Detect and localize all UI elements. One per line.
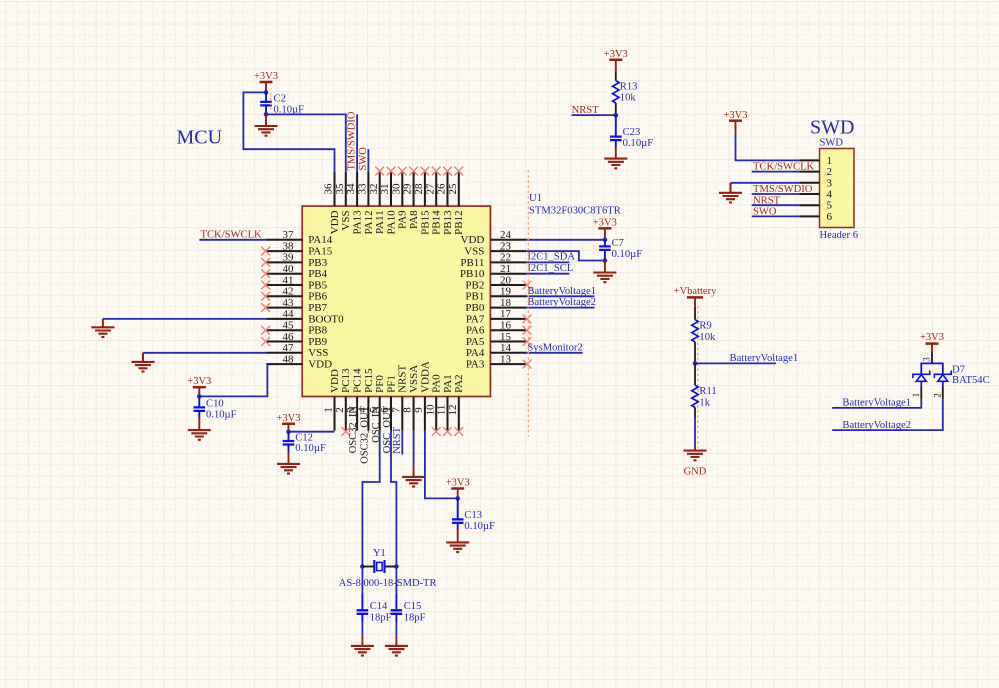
pin 43 (PB7) left (266, 297, 327, 314)
svg-text:AS-8.000-18-SMD-TR: AS-8.000-18-SMD-TR (339, 578, 437, 589)
wire C14 to ground (361, 623, 363, 646)
wire VDDA (pin 9) to C13 (425, 431, 458, 499)
svg-text:2: 2 (827, 166, 833, 178)
pin 8 (VSSA) bottom (402, 365, 420, 431)
diode D7 (dual schottky BAT54C) (911, 363, 951, 399)
wire SWD pin 3 to ground (731, 183, 800, 193)
svg-text:25: 25 (447, 183, 459, 195)
svg-text:0.10µF: 0.10µF (623, 138, 654, 149)
node C2 bottom junction (264, 112, 269, 117)
svg-text:GND: GND (684, 467, 707, 478)
svg-text:46: 46 (283, 331, 295, 343)
pin 11 (PA1) bottom (436, 374, 454, 430)
svg-text:0.10µF: 0.10µF (612, 249, 643, 260)
wire NRST (572, 114, 616, 116)
svg-text:2: 2 (334, 407, 346, 413)
pin 44 (BOOT0) left (266, 308, 344, 325)
wire VSSA (pin 8) to ground (413, 431, 415, 477)
svg-text:39: 39 (283, 252, 295, 264)
svg-text:41: 41 (283, 274, 294, 286)
svg-text:1: 1 (911, 393, 921, 398)
no-connect pin 27 (432, 167, 441, 176)
svg-text:31: 31 (379, 184, 391, 195)
pin 14 (PA4) right (466, 342, 526, 359)
svg-text:PA1: PA1 (442, 374, 454, 393)
value STM32F030C8T6TR (529, 205, 622, 216)
node crystal left junction (360, 564, 365, 569)
no-connect pin 20 (523, 281, 532, 290)
svg-text:33: 33 (357, 183, 369, 195)
pin 18 (PB0) right (465, 297, 526, 314)
svg-text:D7: D7 (952, 365, 965, 376)
svg-text:42: 42 (283, 286, 294, 298)
pin 13 (PA3) right (466, 353, 526, 370)
svg-text:PC15: PC15 (363, 368, 375, 393)
svg-text:+3V3: +3V3 (187, 376, 211, 387)
svg-text:2: 2 (932, 393, 942, 398)
label GND (684, 467, 707, 478)
svg-text:1: 1 (323, 407, 335, 413)
pin 2 (PC13) bottom (334, 368, 352, 431)
svg-text:PB1: PB1 (465, 291, 484, 303)
svg-text:R11: R11 (699, 386, 716, 397)
pin 6 SWD header (799, 211, 832, 223)
svg-text:+3V3: +3V3 (254, 71, 278, 82)
svg-text:C10: C10 (206, 399, 224, 410)
power +Vbattery (674, 286, 717, 307)
wire +3V3 to pin 36 (VDD) (243, 92, 334, 171)
net label BatteryVoltage1 (D7) (832, 398, 921, 409)
svg-text:9: 9 (413, 407, 425, 413)
designator D7 (952, 365, 965, 376)
no-connect pin 40 (261, 269, 270, 278)
svg-text:C12: C12 (295, 432, 313, 443)
svg-text:SysMonitor2: SysMonitor2 (527, 342, 582, 353)
power +3V3 (C10) (187, 376, 211, 396)
pin 41 (PB5) left (266, 274, 327, 291)
no-connect pin 13 (523, 360, 532, 369)
svg-text:MCU: MCU (177, 127, 223, 149)
ground (C15) (385, 646, 408, 656)
power +3V3 (D7) (920, 332, 944, 352)
svg-text:27: 27 (424, 183, 436, 195)
svg-text:0.10µF: 0.10µF (206, 409, 237, 420)
svg-text:PA14: PA14 (308, 234, 333, 246)
svg-text:40: 40 (283, 263, 295, 275)
ground (C14) (351, 646, 374, 656)
wire VSS pin 23 to C7 bottom (526, 251, 605, 260)
svg-text:C7: C7 (612, 238, 624, 249)
wire R11 to ground (694, 419, 696, 451)
value BAT54C (952, 375, 990, 386)
svg-text:BatteryVoltage2: BatteryVoltage2 (527, 297, 596, 308)
no-connect pin 2 (341, 427, 350, 436)
port NRST (SWD pin 5) (753, 195, 781, 206)
svg-text:VSS: VSS (340, 210, 352, 230)
capacitor C12 (283, 432, 295, 452)
svg-text:PB13: PB13 (442, 210, 454, 235)
svg-text:10k: 10k (620, 93, 637, 104)
pin 29 (PA8) top (402, 172, 420, 229)
svg-text:PB2: PB2 (465, 279, 484, 291)
no-connect pin 43 (261, 303, 270, 312)
wire NRST to SWD pin 5 (752, 204, 800, 206)
svg-text:VSS: VSS (308, 347, 328, 359)
svg-text:VSSA: VSSA (408, 365, 420, 393)
svg-text:14: 14 (500, 342, 512, 354)
svg-text:PA6: PA6 (466, 325, 485, 337)
svg-text:PB3: PB3 (308, 257, 327, 269)
port SWO (358, 147, 369, 171)
svg-text:PB10: PB10 (460, 268, 485, 280)
pin 21 (PB10) right (460, 263, 526, 280)
no-connect pin 31 (387, 167, 396, 176)
crystal Y1 (362, 560, 396, 573)
no-connect pin 42 (261, 292, 270, 301)
pin 39 (PB3) left (266, 252, 327, 269)
pin 42 (PB6) left (266, 286, 327, 303)
wire crystal to C15 (395, 567, 397, 594)
no-connect pin 46 (261, 337, 270, 346)
pin 28 (PB15) top (413, 172, 431, 235)
svg-text:SWO: SWO (358, 147, 369, 171)
svg-text:+3V3: +3V3 (920, 332, 944, 343)
svg-text:OSC_IN: OSC_IN (371, 406, 382, 443)
svg-text:VDD: VDD (329, 369, 341, 393)
svg-text:4: 4 (827, 189, 833, 201)
svg-text:13: 13 (500, 353, 512, 365)
svg-text:PA15: PA15 (308, 246, 333, 258)
svg-text:PB0: PB0 (465, 302, 484, 314)
net label OSC_IN (371, 406, 382, 443)
title MCU (177, 127, 223, 149)
svg-text:SWD: SWD (820, 138, 844, 149)
label SWD (header name) (820, 138, 844, 149)
pin 3 D7 (922, 353, 933, 364)
no-connect pin 32 (375, 167, 384, 176)
diff mark C2 (270, 93, 272, 112)
node C12 junction (286, 429, 291, 434)
port TCK/SWCLK (SWD pin 2) (753, 162, 815, 173)
svg-text:32: 32 (368, 184, 380, 195)
svg-text:PC14: PC14 (352, 368, 364, 393)
svg-text:PA4: PA4 (466, 347, 485, 359)
svg-text:+3V3: +3V3 (593, 218, 617, 229)
capacitor C23 (610, 115, 622, 148)
ground (VSSA) (402, 477, 425, 487)
net label OSC32_OUT (360, 405, 371, 463)
svg-text:24: 24 (500, 229, 512, 241)
pin 32 (PA11) top (368, 172, 386, 234)
ground (C7) (593, 261, 616, 283)
svg-text:8: 8 (402, 407, 414, 413)
svg-text:3: 3 (922, 357, 932, 362)
svg-text:C13: C13 (464, 510, 482, 521)
svg-text:PB6: PB6 (308, 291, 327, 303)
svg-text:PB5: PB5 (308, 279, 327, 291)
svg-text:18: 18 (500, 297, 512, 309)
designator Y1 (373, 548, 386, 559)
diff mark battery divider (697, 306, 699, 448)
node C7 top junction (603, 238, 608, 243)
title SWD (810, 117, 854, 139)
no-connect pin 41 (261, 281, 270, 290)
ground (C13) (446, 530, 469, 552)
no-connect pin 38 (261, 247, 270, 256)
svg-text:10: 10 (424, 404, 436, 416)
ground (VSS pin 47) (132, 362, 155, 372)
pin 7 (NRST) bottom (390, 365, 408, 431)
svg-text:+3V3: +3V3 (276, 413, 300, 424)
pin 5 SWD header (799, 200, 832, 212)
svg-text:1k: 1k (699, 397, 710, 408)
pin 4 SWD header (799, 189, 832, 201)
svg-text:PA0: PA0 (431, 374, 443, 393)
power +3V3 (C12) (276, 413, 300, 432)
wire VDD pin 24 to C7 (526, 239, 605, 241)
svg-text:47: 47 (283, 342, 295, 354)
pin 23 (VSS) right (464, 240, 526, 257)
pin 31 (PA10) top (379, 172, 397, 235)
svg-text:U1: U1 (529, 193, 542, 204)
node divider junction (693, 361, 698, 366)
svg-text:PB8: PB8 (308, 325, 327, 337)
no-connect pin 15 (523, 337, 532, 346)
net label OSC32_IN (348, 406, 359, 454)
svg-text:TCK/SWCLK: TCK/SWCLK (201, 229, 263, 240)
value AS-8.000-18-SMD-TR (339, 578, 437, 589)
svg-text:PA5: PA5 (466, 336, 485, 348)
node C2 top junction (264, 90, 269, 95)
label C14 value (370, 601, 392, 624)
svg-text:44: 44 (283, 308, 295, 320)
svg-text:Header 6: Header 6 (820, 230, 859, 241)
ground (C2) (255, 114, 278, 135)
pin 37 (PA14) left (266, 229, 332, 246)
svg-text:STM32F030C8T6TR: STM32F030C8T6TR (529, 205, 622, 216)
pin 10 (PA0) bottom (424, 374, 442, 431)
port TMS/SWDIO (SWD pin 4) (753, 184, 813, 195)
label C2 value (274, 93, 305, 115)
wire TCK/SWCLK to SWD pin 2 (752, 171, 800, 173)
svg-text:PA9: PA9 (397, 210, 409, 229)
no-connect pin 25 (454, 167, 463, 176)
svg-text:OSC32_IN: OSC32_IN (348, 406, 359, 454)
pin 38 (PA15) left (266, 240, 332, 257)
svg-text:C2: C2 (274, 93, 286, 104)
pin 45 (PB8) left (266, 320, 327, 337)
svg-text:+Vbattery: +Vbattery (674, 286, 717, 297)
node C10 junction (197, 394, 202, 399)
port TCK/SWCLK (pin 37) (201, 229, 263, 240)
pin 1 (VDD) bottom (323, 369, 341, 431)
pin 12 (PA2) bottom (447, 374, 465, 430)
svg-text:I2C1_SDA: I2C1_SDA (527, 252, 575, 263)
wire TCK/SWCLK (199, 239, 266, 241)
ground (C10) (188, 418, 211, 440)
power +3V3 (C2) (254, 71, 278, 92)
label C23 value (623, 127, 654, 149)
svg-text:BatteryVoltage1: BatteryVoltage1 (842, 398, 911, 409)
svg-text:R13: R13 (620, 81, 638, 92)
svg-text:35: 35 (334, 183, 346, 195)
label C13 value (464, 510, 495, 532)
svg-text:PB12: PB12 (453, 210, 465, 234)
port SWO (SWD pin 6) (753, 206, 777, 217)
svg-text:6: 6 (827, 211, 833, 223)
pin 3 SWD header (799, 177, 832, 189)
pin 34 (PA13) top (345, 172, 363, 235)
svg-text:VDD: VDD (329, 210, 341, 234)
svg-text:20: 20 (500, 274, 512, 286)
wire C12 to pin 1 (VDD) (289, 431, 335, 433)
ground (C23) (604, 148, 627, 168)
connector J SWD header body (820, 149, 855, 228)
svg-text:3: 3 (827, 177, 833, 189)
net label NRST (pin 7) (392, 426, 403, 454)
capacitor C7 (599, 240, 611, 261)
svg-text:TMS/SWDIO: TMS/SWDIO (347, 111, 358, 170)
svg-text:16: 16 (500, 320, 512, 332)
power +3V3 (SWD) (723, 110, 747, 133)
svg-text:+3V3: +3V3 (604, 49, 628, 60)
node R13/C23 junction (614, 113, 619, 118)
pin 40 (PB4) left (266, 263, 327, 280)
svg-text:PB7: PB7 (308, 302, 327, 314)
no-connect pin 29 (409, 167, 418, 176)
pin 6 (PF1) bottom (379, 375, 397, 431)
label R13 value (620, 81, 638, 103)
pin 46 (PB9) left (266, 331, 327, 348)
node C13 junction (455, 496, 460, 501)
wire SWO stub (pin 33) (367, 149, 369, 172)
svg-text:29: 29 (402, 183, 414, 195)
node crystal right junction (394, 564, 399, 569)
svg-text:PA12: PA12 (363, 210, 375, 234)
capacitor C2 (260, 92, 272, 114)
pin 19 (PB1) right (465, 286, 526, 303)
wire +3V3 to SWD pin 1 (736, 133, 800, 161)
net label BatteryVoltage1 (divider) (695, 353, 798, 364)
svg-text:BAT54C: BAT54C (952, 375, 990, 386)
resistor R11 (692, 363, 698, 418)
svg-text:23: 23 (500, 240, 512, 252)
svg-text:43: 43 (283, 297, 295, 309)
svg-text:0.10µF: 0.10µF (464, 521, 495, 532)
no-connect pin 16 (523, 326, 532, 335)
no-connect pin 17 (523, 315, 532, 324)
pin 16 (PA6) right (466, 320, 526, 337)
ground (GND battery) (684, 451, 707, 461)
svg-text:PF1: PF1 (385, 375, 397, 393)
wire C2 to pin 35 (VSS) (266, 114, 346, 171)
capacitor C13 (452, 498, 464, 530)
svg-text:+3V3: +3V3 (446, 478, 470, 489)
node C7 bottom junction (603, 258, 608, 263)
svg-text:VDDA: VDDA (419, 361, 431, 393)
wire OSC_OUT (pin 6) to crystal (391, 431, 396, 567)
pin 15 (PA5) right (466, 331, 526, 348)
label C10 value (206, 399, 237, 421)
no-connect pin 28 (421, 167, 430, 176)
svg-text:PB11: PB11 (460, 257, 484, 269)
power +3V3 (C13) (446, 478, 470, 499)
svg-text:PA7: PA7 (466, 313, 485, 325)
svg-text:PA13: PA13 (352, 210, 364, 235)
net label SysMonitor2 (pin 14) (526, 342, 583, 353)
wire OSC_IN (pin 5) to crystal (362, 431, 379, 567)
pin 36 (VDD) top (323, 172, 341, 234)
wire SWO to SWD pin 6 (752, 215, 800, 217)
port NRST (572, 105, 600, 116)
net label BatteryVoltage2 (D7) (832, 399, 943, 431)
pin 27 (PB14) top (424, 172, 442, 235)
svg-text:SWD: SWD (810, 117, 854, 139)
pin 33 (PA12) top (357, 172, 375, 235)
pin 26 (PB13) top (436, 172, 454, 235)
svg-text:OSC32_OUT: OSC32_OUT (360, 405, 371, 463)
svg-text:5: 5 (827, 200, 833, 212)
capacitor C14 (357, 593, 369, 622)
resistor R9 (692, 307, 698, 364)
svg-text:17: 17 (500, 308, 512, 320)
svg-text:PA11: PA11 (374, 210, 386, 234)
svg-text:34: 34 (345, 183, 357, 195)
net label I2C1_SCL (pin 21) (526, 263, 573, 274)
pin 20 (PB2) right (465, 274, 526, 291)
no-connect pin 12 (454, 427, 463, 436)
label C7 value (612, 238, 643, 260)
svg-text:PC13: PC13 (340, 368, 352, 393)
svg-text:BatteryVoltage1: BatteryVoltage1 (730, 353, 799, 364)
net label BatteryVoltage2 (pin 18) (526, 297, 596, 308)
wire TMS/SWDIO to SWD pin 4 (752, 193, 800, 195)
svg-text:38: 38 (283, 240, 295, 252)
wire TMS/SWDIO stub (pin 34) (356, 114, 358, 171)
pin 47 (VSS) left (266, 342, 328, 359)
pin 35 (VSS) top (334, 172, 352, 231)
ground (C12) (277, 452, 300, 474)
svg-text:PB14: PB14 (431, 210, 443, 235)
svg-text:PA10: PA10 (385, 210, 397, 235)
power +3V3 (R13) (604, 49, 628, 71)
no-connect pin 30 (398, 167, 407, 176)
svg-text:19: 19 (500, 286, 512, 298)
wire VSS pin 47 to ground (143, 353, 266, 362)
pin 22 (PB11) right (460, 252, 526, 269)
svg-text:26: 26 (436, 183, 448, 195)
svg-text:37: 37 (283, 229, 295, 241)
svg-text:NRST: NRST (572, 105, 600, 116)
no-connect pin 39 (261, 258, 270, 267)
svg-text:VDD: VDD (308, 359, 332, 371)
svg-text:BatteryVoltage1: BatteryVoltage1 (527, 286, 596, 297)
svg-text:PA2: PA2 (453, 374, 465, 393)
pin 25 (PB12) top (447, 172, 465, 235)
resistor R13 (613, 71, 619, 115)
svg-text:C23: C23 (623, 127, 641, 138)
net label OSC_OUT (382, 405, 393, 453)
wire crystal to C14 (361, 567, 363, 594)
wire BOOT0 to ground (103, 319, 267, 327)
svg-text:PA3: PA3 (466, 359, 485, 371)
pin 24 (VDD) right (461, 229, 527, 246)
svg-text:30: 30 (390, 183, 402, 195)
no-connect pin 11 (443, 427, 452, 436)
label C12 value (295, 432, 326, 454)
svg-text:PB15: PB15 (419, 210, 431, 235)
capacitor C15 (391, 593, 403, 622)
